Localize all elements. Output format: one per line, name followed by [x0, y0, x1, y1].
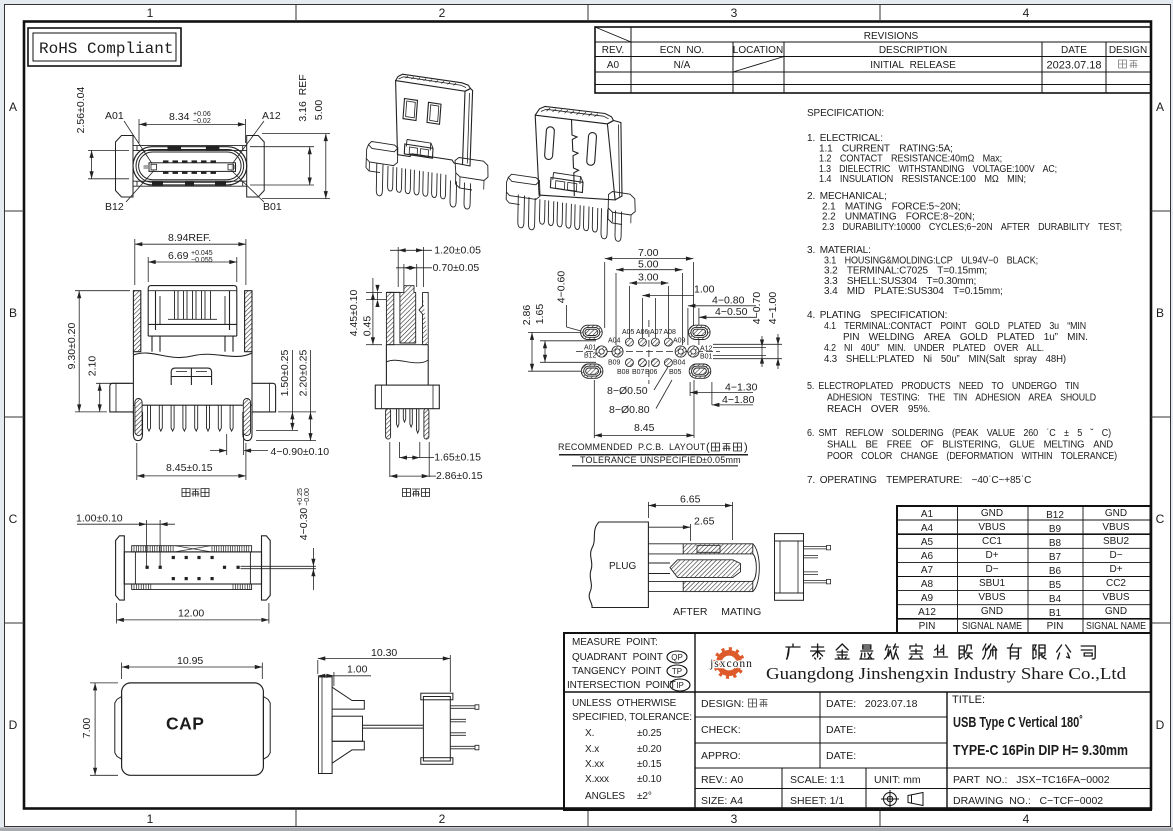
svg-text:8−Ø0.50: 8−Ø0.50 [607, 385, 648, 397]
svg-text:4.1 TERMINAL:CONTACT POINT: 4.1 TERMINAL:CONTACT POINT GOLD PLATED 3… [824, 321, 1086, 332]
svg-text:AFTER MATING: AFTER MATING [673, 606, 761, 618]
svg-text:A05: A05 [622, 329, 635, 336]
svg-text:3.4 MID PLATE:SUS304 T=0.15: 3.4 MID PLATE:SUS304 T=0.15mm; [824, 286, 1003, 297]
svg-text:8−Ø0.80: 8−Ø0.80 [609, 404, 650, 416]
svg-text:CC1: CC1 [982, 536, 1002, 547]
svg-text:B04: B04 [673, 360, 686, 367]
svg-text:DESIGN:: DESIGN: [701, 698, 744, 710]
svg-text:Guangdong Jinshengxin Industry: Guangdong Jinshengxin Industry Share Co.… [766, 664, 1127, 683]
svg-text:APPRO:: APPRO: [701, 750, 741, 762]
svg-text:8.94REF.: 8.94REF. [168, 232, 211, 244]
svg-text:REVISIONS: REVISIONS [864, 31, 919, 42]
svg-text:B05: B05 [669, 369, 682, 376]
svg-text:A0: A0 [607, 60, 620, 71]
svg-text:N/A: N/A [674, 60, 691, 71]
svg-text:B01: B01 [700, 354, 713, 361]
svg-text:X.x: X.x [585, 744, 599, 755]
svg-text:7.00: 7.00 [638, 247, 659, 259]
svg-text:UNLESS OTHERWISE: UNLESS OTHERWISE [572, 698, 677, 709]
svg-text:3: 3 [731, 6, 738, 20]
svg-text:7.00: 7.00 [81, 718, 93, 739]
svg-text:0.45: 0.45 [362, 316, 374, 337]
svg-text:1.50±0.25: 1.50±0.25 [279, 350, 291, 397]
svg-text:2: 2 [439, 6, 446, 20]
svg-text:P.C.B.: P.C.B. [638, 442, 664, 452]
svg-text:4−1.00: 4−1.00 [767, 292, 779, 325]
svg-text:SBU1: SBU1 [979, 578, 1006, 589]
svg-text:PIN WELDING AREA GOLD PLAT: PIN WELDING AREA GOLD PLATED 1u” MIN. [843, 332, 1088, 343]
svg-text:VBUS: VBUS [1102, 592, 1130, 603]
svg-text:5. ELECTROPLATED PRODUCTS NE: 5. ELECTROPLATED PRODUCTS NEED TO UNDERG… [807, 381, 1079, 392]
svg-text:2.10: 2.10 [87, 356, 99, 377]
svg-text:REV.: A0: REV.: A0 [701, 774, 743, 786]
svg-text:1.20±0.05: 1.20±0.05 [434, 245, 481, 257]
svg-text:UNIT: mm: UNIT: mm [874, 774, 921, 786]
svg-text:1.00±0.10: 1.00±0.10 [76, 513, 123, 525]
svg-text:A1: A1 [921, 509, 934, 520]
svg-text:7. OPERATING TEMPERATURE: −4: 7. OPERATING TEMPERATURE: −40ˈC~+85ˈC [807, 475, 1031, 486]
svg-text:C: C [9, 512, 18, 526]
svg-text:A7: A7 [921, 565, 934, 576]
svg-text:6.65: 6.65 [680, 494, 701, 506]
svg-text:INITIAL RELEASE: INITIAL RELEASE [870, 60, 956, 71]
svg-text:LAYOUT: LAYOUT [669, 442, 706, 452]
svg-text:TANGENCY POINT: TANGENCY POINT [572, 666, 661, 677]
svg-text:C: C [1156, 512, 1165, 526]
svg-text:B01: B01 [263, 201, 282, 213]
svg-text:4.2 NI 40U” MIN. UNDER PL: 4.2 NI 40U” MIN. UNDER PLATED OVER ALL. [824, 343, 1044, 354]
svg-text:6.69: 6.69 [168, 250, 189, 262]
svg-text:A4: A4 [921, 523, 934, 534]
svg-text:B1: B1 [1049, 608, 1062, 619]
svg-text:INTERSECTION POINT: INTERSECTION POINT [567, 680, 676, 691]
svg-text:SHALL BE FREE OF BLISTERIN: SHALL BE FREE OF BLISTERING, GLUE MELTIN… [827, 440, 1113, 451]
svg-text:B4: B4 [1049, 594, 1062, 605]
svg-text:A9: A9 [921, 593, 934, 604]
svg-text:10.95: 10.95 [177, 655, 203, 667]
svg-text:ANGLES: ANGLES [585, 791, 625, 802]
svg-text:A04: A04 [608, 338, 621, 345]
svg-text:PIN: PIN [1047, 621, 1064, 632]
svg-text:±2°: ±2° [637, 791, 652, 802]
svg-text:±0.25: ±0.25 [637, 728, 662, 739]
svg-text:A08: A08 [664, 329, 677, 336]
svg-text:±0.10: ±0.10 [637, 774, 662, 785]
svg-text:A: A [1156, 100, 1164, 114]
svg-text:DESIGN: DESIGN [1109, 45, 1147, 56]
svg-text:A5: A5 [921, 537, 934, 548]
svg-text:LOCATION: LOCATION [733, 45, 783, 56]
svg-text:CHECK:: CHECK: [701, 724, 741, 736]
svg-text:B12: B12 [584, 353, 597, 360]
svg-text:USB Type C Vertical 180˚: USB Type C Vertical 180˚ [953, 714, 1083, 731]
svg-text:D: D [1156, 718, 1165, 732]
svg-text:(: ( [706, 442, 710, 454]
svg-text:D+: D+ [985, 550, 998, 561]
svg-text:9.30±0.20: 9.30±0.20 [66, 323, 78, 370]
svg-text:UNSPECIFIED: UNSPECIFIED [640, 455, 703, 465]
svg-text:−0.055: −0.055 [191, 257, 213, 264]
svg-text:jsxconn: jsxconn [709, 658, 753, 670]
svg-text:RECOMMENDED: RECOMMENDED [558, 442, 633, 452]
svg-text:B07: B07 [632, 369, 645, 376]
svg-text:X.xxx: X.xxx [585, 774, 609, 785]
svg-text:DRAWING NO.: C−TCF−0002: DRAWING NO.: C−TCF−0002 [953, 795, 1103, 807]
svg-text:A8: A8 [921, 579, 934, 590]
svg-text:A12: A12 [918, 607, 936, 618]
svg-text:3.16 REF: 3.16 REF [297, 74, 309, 121]
svg-text:): ) [744, 442, 748, 454]
svg-text:4. PLATING SPECIFICATION:: 4. PLATING SPECIFICATION: [807, 310, 947, 321]
svg-text:10.30: 10.30 [371, 647, 397, 659]
svg-text:TOLERANCE: TOLERANCE [580, 455, 637, 465]
svg-text:B09: B09 [608, 360, 621, 367]
svg-text:GND: GND [1105, 508, 1127, 519]
svg-text:5.00: 5.00 [313, 100, 325, 121]
svg-text:A6: A6 [921, 551, 934, 562]
svg-text:QUADRANT POINT: QUADRANT POINT [572, 652, 663, 663]
svg-text:RoHS Compliant: RoHS Compliant [39, 40, 173, 58]
svg-text:4−1.30: 4−1.30 [725, 382, 758, 394]
svg-text:ADHESION TESTING: THE TIN: ADHESION TESTING: THE TIN ADHESION AREA … [827, 393, 1096, 404]
svg-text:±0.05mm: ±0.05mm [702, 455, 741, 465]
svg-text:B: B [9, 306, 17, 320]
svg-text:TP: TP [672, 667, 682, 676]
svg-text:B5: B5 [1049, 580, 1062, 591]
svg-text:POOR COLOR CHANGE (DEFORMAT: POOR COLOR CHANGE (DEFORMATION WITHIN TO… [827, 451, 1117, 462]
svg-text:8.34: 8.34 [169, 111, 190, 123]
svg-text:2.56±0.04: 2.56±0.04 [75, 87, 87, 134]
svg-text:3.00: 3.00 [638, 272, 659, 284]
svg-text:B: B [1156, 306, 1164, 320]
svg-text:DESCRIPTION: DESCRIPTION [879, 45, 947, 56]
svg-text:QP: QP [671, 653, 683, 662]
svg-text:2.86: 2.86 [521, 305, 533, 326]
svg-text:12.00: 12.00 [178, 608, 204, 620]
svg-text:+0.045: +0.045 [191, 250, 213, 257]
svg-text:4−0.90±0.10: 4−0.90±0.10 [271, 446, 330, 458]
svg-text:VBUS: VBUS [978, 522, 1006, 533]
svg-text:IP: IP [676, 681, 684, 690]
svg-text:2.3 DURABILITY:10000 CYCLES;: 2.3 DURABILITY:10000 CYCLES;6~20N AFTER … [822, 222, 1122, 233]
svg-text:DATE: DATE [1061, 45, 1087, 56]
svg-text:4−1.80: 4−1.80 [722, 394, 755, 406]
svg-text:SHEET: 1/1: SHEET: 1/1 [790, 795, 844, 807]
svg-text:A12: A12 [262, 110, 281, 122]
svg-text:B9: B9 [1049, 524, 1062, 535]
svg-text:B12: B12 [1046, 510, 1064, 521]
svg-text:B8: B8 [1049, 538, 1062, 549]
svg-text:6. SMT REFLOW SOLDERING (PE: 6. SMT REFLOW SOLDERING (PEAK VALUE 260 … [807, 428, 1111, 439]
svg-text:A01: A01 [584, 345, 597, 352]
svg-text:PLUG: PLUG [609, 561, 636, 572]
svg-text:MEASURE POINT:: MEASURE POINT: [572, 637, 658, 648]
svg-text:A01: A01 [105, 110, 124, 122]
svg-text:1.00: 1.00 [347, 664, 368, 676]
svg-text:4−0.60: 4−0.60 [556, 271, 568, 304]
svg-text:−0.02: −0.02 [193, 118, 211, 125]
svg-text:B6: B6 [1049, 566, 1062, 577]
svg-text:1.65±0.15: 1.65±0.15 [434, 452, 481, 464]
svg-text:1: 1 [147, 812, 154, 826]
svg-text:SPECIFIED, TOLERANCE:: SPECIFIED, TOLERANCE: [572, 712, 692, 723]
svg-text:1: 1 [147, 6, 154, 20]
svg-text:DATE: 2023.07.18: DATE: 2023.07.18 [826, 698, 918, 710]
svg-text:SIZE: A4: SIZE: A4 [701, 795, 743, 807]
svg-text:4.3 SHELL:PLATED Ni 50u” M: 4.3 SHELL:PLATED Ni 50u” MIN(Salt spray … [824, 354, 1066, 365]
svg-text:A09: A09 [673, 338, 686, 345]
svg-text:VBUS: VBUS [978, 592, 1006, 603]
svg-text:SBU2: SBU2 [1103, 536, 1130, 547]
svg-text:X.: X. [585, 728, 594, 739]
svg-text:±0.15: ±0.15 [637, 759, 662, 770]
svg-text:2.20±0.25: 2.20±0.25 [298, 350, 310, 397]
svg-text:+0.06: +0.06 [193, 111, 211, 118]
svg-text:X.xx: X.xx [585, 759, 604, 770]
svg-text:CAP: CAP [166, 714, 204, 734]
svg-text:GND: GND [981, 606, 1003, 617]
svg-text:SCALE: 1:1: SCALE: 1:1 [790, 774, 845, 786]
svg-text:D−: D− [1109, 550, 1122, 561]
svg-text:2023.07.18: 2023.07.18 [1046, 60, 1101, 72]
svg-text:DATE:: DATE: [826, 724, 856, 736]
svg-text:ECN NO.: ECN NO. [660, 45, 704, 56]
svg-text:4: 4 [1023, 6, 1030, 20]
svg-text:SIGNAL NAME: SIGNAL NAME [1086, 621, 1146, 632]
svg-text:8.45: 8.45 [634, 422, 655, 434]
svg-text:B08: B08 [617, 369, 630, 376]
svg-text:3: 3 [731, 812, 738, 826]
svg-text:4: 4 [1023, 812, 1030, 826]
svg-text:2.65: 2.65 [694, 516, 715, 528]
svg-text:REACH OVER 95%.: REACH OVER 95%. [827, 404, 930, 415]
svg-text:A06: A06 [636, 329, 649, 336]
svg-text:PIN: PIN [919, 621, 936, 632]
svg-text:SPECIFICATION:: SPECIFICATION: [807, 108, 884, 119]
svg-text:2: 2 [439, 812, 446, 826]
svg-text:DATE:: DATE: [826, 750, 856, 762]
svg-text:−0.00: −0.00 [304, 488, 311, 506]
svg-text:B06: B06 [645, 369, 658, 376]
svg-text:D: D [9, 718, 18, 732]
svg-text:4−0.30: 4−0.30 [298, 508, 310, 541]
svg-text:CC2: CC2 [1106, 578, 1126, 589]
svg-text:D−: D− [985, 564, 998, 575]
svg-text:GND: GND [981, 508, 1003, 519]
svg-text:1.65: 1.65 [534, 304, 546, 325]
svg-text:8.45±0.15: 8.45±0.15 [166, 462, 213, 474]
svg-text:A: A [9, 100, 17, 114]
svg-text:4−0.80: 4−0.80 [712, 295, 745, 307]
svg-text:B12: B12 [105, 201, 124, 213]
svg-text:TITLE:: TITLE: [952, 694, 985, 706]
svg-text:TYPE-C 16Pin DIP H= 9.30mm: TYPE-C 16Pin DIP H= 9.30mm [953, 742, 1128, 759]
svg-text:4.45±0.10: 4.45±0.10 [348, 290, 360, 337]
svg-text:B7: B7 [1049, 552, 1062, 563]
svg-text:REV.: REV. [602, 45, 624, 56]
svg-text:D+: D+ [1109, 564, 1122, 575]
svg-text:±0.20: ±0.20 [637, 744, 662, 755]
svg-text:4−0.50: 4−0.50 [715, 306, 748, 318]
svg-text:VBUS: VBUS [1102, 522, 1130, 533]
svg-text:A07: A07 [650, 329, 663, 336]
svg-text:0.70±0.05: 0.70±0.05 [433, 262, 480, 274]
svg-text:5.00: 5.00 [638, 259, 659, 271]
svg-text:SIGNAL NAME: SIGNAL NAME [962, 621, 1022, 632]
svg-text:1.4 INSULATION RESISTANCE:10: 1.4 INSULATION RESISTANCE:100 MΩ MIN; [819, 174, 1026, 185]
svg-text:2.86±0.15: 2.86±0.15 [436, 470, 483, 482]
svg-text:A12: A12 [700, 346, 713, 353]
svg-text:GND: GND [1105, 606, 1127, 617]
svg-text:PART NO.: JSX−TC16FA−0002: PART NO.: JSX−TC16FA−0002 [953, 774, 1110, 786]
svg-text:4−0.70: 4−0.70 [751, 292, 763, 325]
svg-text:+0.25: +0.25 [297, 488, 304, 506]
